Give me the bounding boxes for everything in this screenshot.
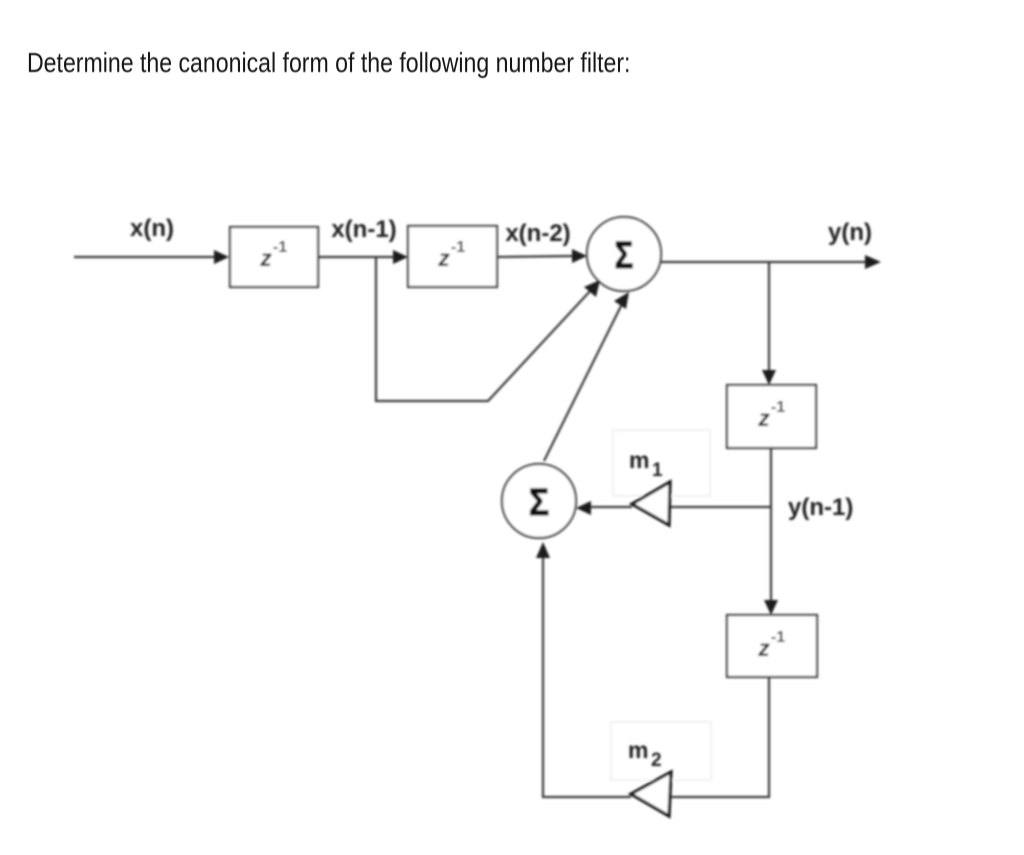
node: junction on x(n-1) wire [375, 257, 377, 258]
label x(n-1) [331, 216, 396, 243]
svg-text:2: 2 [651, 750, 662, 771]
label x(n) [130, 215, 174, 242]
svg-text:y(n-1): y(n-1) [788, 494, 853, 521]
wire: gain m2 output left and up into summer S2 bottom [536, 542, 631, 797]
svg-text:Σ: Σ [529, 481, 549, 523]
svg-text:x(n): x(n) [130, 215, 174, 242]
value label z^-1 of second feedback delay [757, 629, 785, 661]
gain m2 (left-pointing triangle amplifier) [631, 772, 671, 816]
wire: y(n-1) vertical from first feedback delay down to second feedback delay [764, 448, 778, 615]
value label z^-1 of first delay [259, 239, 287, 271]
label y(n-1) [788, 494, 853, 521]
label y(n) [828, 219, 872, 246]
gain m1 (left-pointing triangle amplifier) [632, 482, 670, 525]
svg-text:z: z [757, 635, 770, 661]
svg-text:z: z [437, 245, 450, 271]
svg-text:-1: -1 [451, 239, 465, 256]
svg-text:y(n): y(n) [828, 219, 872, 246]
wire: x(n-2) from second delay to summer S1 [497, 249, 587, 263]
summer S1 (top sigma circle) [587, 217, 661, 291]
svg-text:z: z [259, 245, 272, 271]
wire: tap at y(n-1) node toward gain m1 [671, 506, 771, 508]
label x(n-2) [505, 220, 570, 247]
svg-text:x(n-1): x(n-1) [331, 216, 396, 243]
svg-text:-1: -1 [273, 239, 287, 256]
svg-text:Σ: Σ [615, 235, 634, 277]
wire: gain m1 output into summer S2 [576, 501, 632, 515]
svg-text:m: m [628, 737, 648, 763]
delay block z^-1 (second feedback) [727, 615, 817, 677]
label m1 [629, 447, 663, 481]
svg-text:z: z [757, 405, 770, 431]
wire: x(n-1) from first delay to second delay [318, 250, 408, 264]
sigma symbol of summer S1 [615, 235, 634, 277]
wire: feedforward x(n-1) path down, across and diagonal into summer S1 [376, 257, 600, 401]
wire: from second feedback delay down and left to gain m2 [671, 677, 769, 797]
wire: branch from y(n) down to first feedback delay [762, 262, 776, 385]
delay block z^-1 (first feedback) [727, 385, 816, 448]
value label z^-1 of first feedback delay [757, 399, 785, 431]
wire: summer S2 output diagonal up into summer S1 [544, 292, 629, 461]
label m2 [628, 737, 662, 771]
wire: output y(n) from summer S1 [661, 255, 881, 269]
artifact box near m2 [611, 722, 711, 780]
delay block z^-1 (second, top row) [408, 226, 497, 287]
artifact box near m1 [613, 430, 710, 496]
svg-text:-1: -1 [771, 399, 785, 416]
svg-text:-1: -1 [771, 629, 785, 646]
svg-text:x(n-2): x(n-2) [505, 220, 570, 247]
title text [27, 47, 630, 79]
wire: input x(n) into first delay [74, 250, 229, 264]
delay block z^-1 (first, top row) [230, 227, 318, 287]
value label z^-1 of second delay [437, 239, 465, 271]
svg-text:m: m [629, 447, 649, 473]
svg-text:1: 1 [652, 460, 663, 481]
summer S2 (lower sigma circle) [502, 464, 576, 538]
sigma symbol of summer S2 [529, 481, 549, 523]
